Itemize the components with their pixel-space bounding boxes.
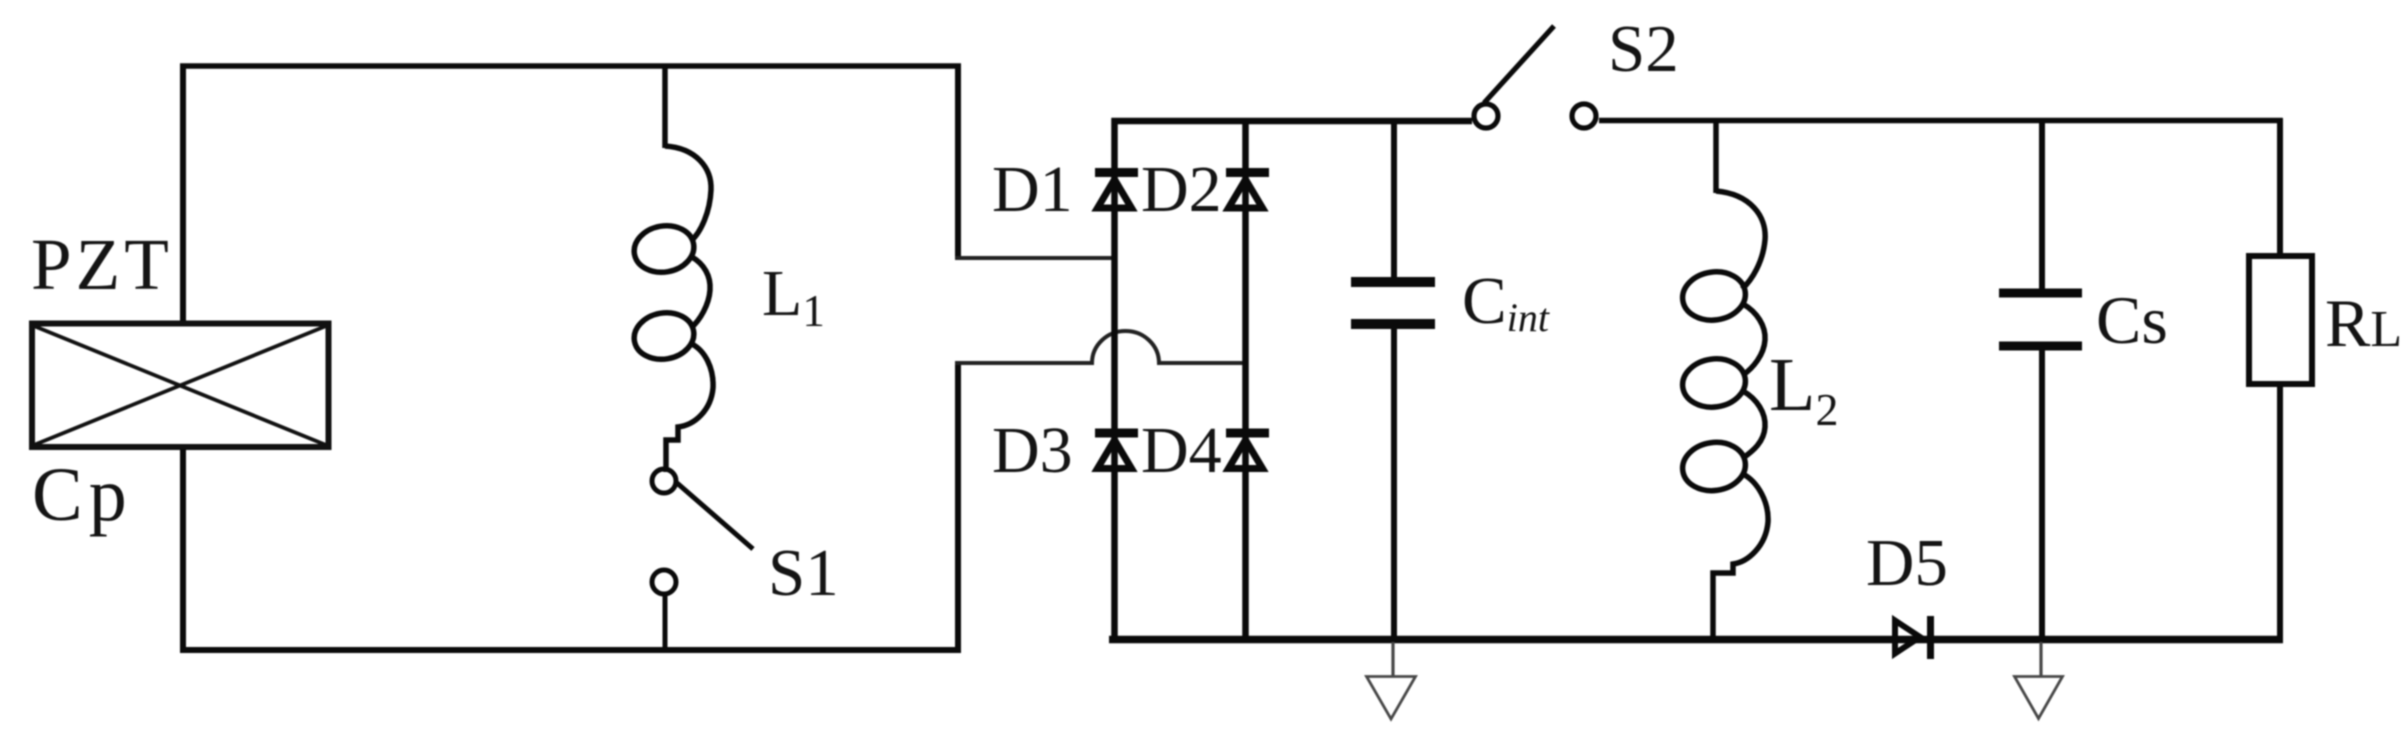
svg-text:Cint: Cint bbox=[1462, 264, 1550, 340]
svg-text:S1: S1 bbox=[768, 536, 839, 610]
ground below Cs bbox=[2015, 642, 2063, 719]
diode D3 bbox=[1095, 433, 1138, 469]
switch S1 bbox=[652, 469, 753, 651]
svg-text:Cs: Cs bbox=[2096, 282, 2168, 358]
diode D1 bbox=[1095, 173, 1138, 209]
svg-text:D5: D5 bbox=[1866, 526, 1948, 600]
wire: top rail right section bbox=[1599, 118, 2283, 124]
svg-text:L1: L1 bbox=[762, 257, 825, 336]
svg-text:Cp: Cp bbox=[32, 453, 133, 537]
bridge left rail bbox=[1111, 118, 1118, 642]
svg-text:RL: RL bbox=[2325, 285, 2402, 361]
svg-text:PZT: PZT bbox=[31, 224, 173, 305]
svg-text:D2: D2 bbox=[1141, 153, 1222, 226]
wire: left loop left side upper bbox=[180, 64, 186, 323]
diode D5 bbox=[1895, 616, 1931, 659]
svg-text:D3: D3 bbox=[992, 414, 1073, 487]
wire: left loop top rail bbox=[180, 63, 961, 69]
svg-text:D1: D1 bbox=[992, 153, 1073, 226]
inductor L1 bbox=[630, 64, 713, 473]
wire: left loop right side lower bbox=[955, 361, 961, 652]
bridge top rail bbox=[1112, 118, 1473, 125]
switch S2 bbox=[1474, 26, 1596, 128]
bottom rail (rectified side) bbox=[1109, 636, 2283, 644]
capacitor Cs bbox=[1999, 118, 2082, 642]
inductor L2 bbox=[1679, 118, 1768, 642]
ground below Cint bbox=[1367, 642, 1416, 719]
bridge right rail bbox=[1242, 118, 1249, 642]
wire: left loop bottom rail bbox=[180, 647, 961, 653]
svg-text:D4: D4 bbox=[1141, 414, 1222, 487]
diode D2 bbox=[1226, 173, 1269, 209]
wire: AC stub from loop to bridge node 1 bbox=[955, 256, 1114, 260]
wire: AC stub to bridge node 2 with crossover hump bbox=[955, 331, 1245, 363]
piezoelectric element PZT (capacitance Cp) bbox=[32, 324, 329, 448]
svg-text:L2: L2 bbox=[1769, 343, 1838, 435]
svg-text:S2: S2 bbox=[1608, 12, 1679, 86]
diode D4 bbox=[1226, 433, 1269, 469]
wire: left loop left side lower bbox=[180, 449, 186, 653]
wire: left loop right side upper bbox=[955, 64, 961, 261]
resistor RL bbox=[2249, 118, 2312, 642]
capacitor Cint bbox=[1351, 118, 1435, 642]
